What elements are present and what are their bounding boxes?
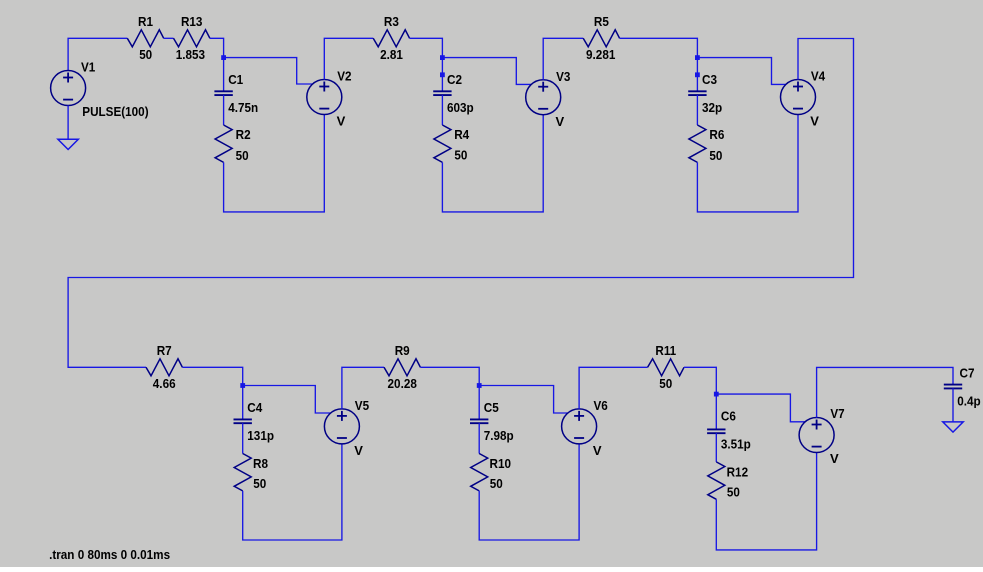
wire R13 to node N1 — [210, 38, 224, 57]
svg-text:R9: R9 — [395, 343, 410, 358]
wire R10 to V6 minus — [479, 444, 579, 540]
wire C7 to ground — [952, 388, 954, 422]
svg-text:9.281: 9.281 — [586, 47, 615, 62]
svg-text:C2: C2 — [447, 72, 462, 87]
pin marker at C3 top — [695, 72, 700, 77]
voltage source V1 — [51, 71, 86, 106]
svg-text:C4: C4 — [247, 400, 263, 415]
pin marker at C2 top — [440, 72, 445, 77]
svg-text:V3: V3 — [556, 69, 570, 84]
svg-text:R10: R10 — [490, 456, 512, 471]
svg-text:V: V — [556, 114, 565, 129]
svg-text:50: 50 — [253, 476, 266, 491]
wire V7 plus to C7 — [817, 367, 953, 417]
wire V2 plus to R3 — [324, 38, 373, 79]
svg-text:R6: R6 — [709, 127, 724, 142]
wire node N5 to C5 — [478, 386, 480, 420]
wire node N1 to C1 — [223, 58, 225, 92]
wire C6 to R12 — [715, 433, 717, 462]
svg-text:4.75n: 4.75n — [228, 100, 258, 115]
svg-text:131p: 131p — [247, 428, 274, 443]
resistor R4 — [434, 125, 451, 162]
capacitor C6 — [707, 429, 725, 433]
resistor R11 — [648, 359, 684, 376]
wire R7 to node N4 — [182, 367, 242, 385]
svg-text:PULSE(100): PULSE(100) — [82, 104, 148, 119]
resistor R9 — [384, 359, 420, 376]
svg-text:R5: R5 — [594, 14, 609, 29]
wire V4 plus feedback to R7 — [68, 39, 853, 368]
wire R12 to V7 minus — [716, 452, 816, 550]
svg-text:C1: C1 — [228, 72, 243, 87]
svg-text:0.4p: 0.4p — [957, 393, 980, 408]
wire node N3 to V4 plus — [697, 58, 788, 85]
wire V1 top to R1 — [68, 38, 127, 70]
svg-text:20.28: 20.28 — [388, 376, 417, 391]
capacitor C2 — [433, 91, 451, 95]
voltage source V4 — [781, 80, 816, 115]
voltage source V6 — [562, 409, 597, 444]
svg-text:V1: V1 — [81, 60, 95, 75]
capacitor C1 — [214, 91, 232, 95]
resistor R13 — [174, 30, 210, 47]
svg-text:2.81: 2.81 — [380, 47, 403, 62]
svg-text:R2: R2 — [236, 127, 251, 142]
wire R11 to node N6 — [684, 367, 716, 394]
resistor R6 — [689, 125, 706, 162]
capacitor C4 — [234, 419, 252, 423]
wire V5 plus to R9 — [342, 367, 384, 409]
svg-text:50: 50 — [659, 376, 672, 391]
svg-text:R11: R11 — [655, 343, 676, 358]
svg-text:50: 50 — [236, 148, 249, 163]
wire C4 to R8 — [242, 423, 244, 453]
wire V1 to ground — [67, 106, 69, 140]
voltage source V5 — [324, 409, 359, 444]
wire R3 to node N2 — [410, 38, 443, 57]
svg-text:50: 50 — [709, 148, 722, 163]
svg-text:R3: R3 — [384, 14, 399, 29]
svg-text:7.98p: 7.98p — [484, 428, 514, 443]
wire node N2 to C2 — [441, 58, 443, 92]
capacitor C3 — [688, 91, 706, 95]
wire C1 to R2 — [223, 95, 225, 125]
svg-text:R4: R4 — [454, 127, 470, 142]
svg-text:C3: C3 — [702, 72, 717, 87]
svg-text:C5: C5 — [484, 400, 499, 415]
svg-text:.tran 0 80ms 0 0.01ms: .tran 0 80ms 0 0.01ms — [49, 547, 170, 562]
wire node N4 to V5 plus — [243, 386, 331, 414]
wire C5 to R10 — [478, 423, 480, 453]
resistor R2 — [215, 125, 232, 162]
capacitor C7 — [944, 385, 962, 389]
svg-text:R8: R8 — [253, 456, 268, 471]
ground below C7 — [943, 422, 963, 432]
svg-text:V: V — [810, 114, 819, 129]
svg-text:R13: R13 — [181, 14, 203, 29]
resistor R12 — [708, 462, 725, 499]
resistor R8 — [234, 454, 251, 491]
resistor R7 — [146, 359, 182, 376]
resistor R3 — [373, 30, 409, 47]
svg-text:R1: R1 — [138, 14, 153, 29]
svg-text:V: V — [354, 443, 363, 458]
svg-text:R12: R12 — [727, 464, 749, 479]
svg-text:V4: V4 — [811, 69, 826, 84]
wire node N1 to V2 plus — [224, 58, 314, 84]
svg-text:C7: C7 — [960, 366, 975, 381]
svg-text:C6: C6 — [721, 409, 736, 424]
node N5 junction — [477, 383, 482, 388]
svg-text:V2: V2 — [337, 69, 351, 84]
svg-text:3.51p: 3.51p — [721, 437, 751, 452]
svg-text:V: V — [830, 451, 839, 466]
node N4 junction — [240, 383, 245, 388]
svg-text:V: V — [337, 114, 346, 129]
capacitor C5 — [470, 419, 488, 423]
wire R2 to V2 minus — [224, 115, 325, 212]
node N1 junction — [221, 55, 226, 60]
wire R9 to node N5 — [420, 367, 479, 385]
voltage source V2 — [307, 80, 342, 115]
node N6 junction — [714, 392, 719, 397]
resistor R10 — [471, 454, 488, 491]
svg-text:R7: R7 — [157, 343, 172, 358]
svg-text:V: V — [593, 443, 602, 458]
svg-text:1.853: 1.853 — [176, 47, 205, 62]
node N2 junction — [440, 55, 445, 60]
resistor R5 — [583, 30, 619, 47]
svg-text:50: 50 — [454, 148, 467, 163]
node N3 junction — [695, 55, 700, 60]
voltage source V3 — [526, 80, 561, 115]
resistor R1 — [127, 30, 163, 47]
wire C3 to R6 — [696, 95, 698, 125]
wire node N3 to C3 — [696, 58, 698, 92]
svg-text:4.66: 4.66 — [153, 376, 176, 391]
wire R8 to V5 minus — [243, 444, 342, 540]
wire R1 to R13 — [164, 37, 174, 39]
svg-text:50: 50 — [490, 476, 503, 491]
svg-text:V7: V7 — [830, 406, 844, 421]
wire R4 to V3 minus — [442, 115, 543, 212]
voltage source V7 — [799, 418, 834, 453]
wire node N5 to V6 plus — [479, 386, 568, 414]
svg-text:50: 50 — [139, 47, 152, 62]
wire R6 to V4 minus — [697, 115, 798, 212]
wire node N6 to V7 plus — [716, 394, 806, 422]
wire C2 to R4 — [441, 95, 443, 125]
svg-text:32p: 32p — [702, 100, 722, 115]
wire node N6 to C6 — [715, 394, 717, 429]
svg-text:603p: 603p — [447, 100, 474, 115]
svg-text:V5: V5 — [355, 398, 369, 413]
ground below V1 — [58, 139, 78, 149]
wire R5 to node N3 — [620, 38, 698, 57]
wire V3 plus to R5 — [543, 38, 583, 79]
svg-text:V6: V6 — [594, 398, 608, 413]
wire V6 plus to R11 — [579, 367, 648, 409]
wire node N4 to C4 — [242, 386, 244, 420]
svg-text:50: 50 — [727, 485, 740, 500]
wire node N2 to V3 plus — [442, 58, 533, 85]
